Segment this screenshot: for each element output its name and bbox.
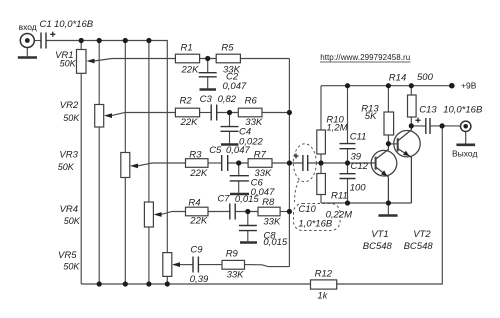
ground line under transistors: [321, 202, 411, 204]
svg-text:22K: 22K: [189, 216, 208, 227]
wire bottom bus: [81, 126, 442, 284]
wire R3 to C5: [208, 162, 222, 164]
capacitor C11: [340, 144, 356, 149]
wire R10 stems: [320, 86, 322, 163]
wire R11 stems: [320, 163, 322, 203]
wire R7 to summing line: [272, 162, 289, 164]
ground bar C2: [200, 88, 217, 91]
wire column 4: [148, 41, 150, 285]
resistor R9: [222, 260, 245, 269]
svg-text:0,82: 0,82: [218, 94, 237, 105]
wire R6 to summing line: [262, 112, 289, 114]
wire VR5 wiper to C9: [180, 264, 194, 266]
svg-text:10,0*16В: 10,0*16В: [443, 105, 483, 116]
svg-text:22K: 22K: [189, 168, 208, 179]
wire C4 stems: [229, 113, 231, 144]
svg-text:VT1: VT1: [371, 229, 388, 240]
svg-text:C10: C10: [298, 204, 316, 215]
svg-text:33K: 33K: [227, 270, 245, 281]
capacitor C13: [426, 118, 430, 134]
wire input to C1: [34, 40, 41, 42]
svg-text:R9: R9: [226, 249, 239, 260]
input connector ground stem: [26, 47, 28, 56]
node C13 output: [440, 123, 445, 128]
wire column 3: [124, 41, 126, 285]
wire column 2: [98, 41, 100, 285]
svg-text:VT2: VT2: [413, 229, 431, 240]
summing line junctions: [287, 110, 292, 115]
resistor R13: [384, 112, 394, 135]
wiper arrow VR1: [87, 59, 95, 64]
capacitor C12: [340, 174, 356, 179]
svg-text:500: 500: [417, 72, 434, 83]
plus C1: [50, 32, 55, 37]
wire VR4 wiper to R4: [161, 212, 186, 215]
svg-text:10,0*16В: 10,0*16В: [54, 19, 94, 30]
wire C3 to R6: [217, 112, 239, 114]
svg-text:C11: C11: [350, 132, 367, 143]
wire C2 stems: [207, 59, 209, 89]
resistor R11: [317, 174, 326, 195]
capacitor C4: [221, 127, 239, 132]
wire R14 stems: [410, 86, 412, 126]
node VT2 collector R14 C13: [409, 123, 414, 128]
transistor VT2: [394, 126, 420, 203]
svg-text:C3: C3: [200, 94, 213, 105]
svg-text:R12: R12: [315, 269, 333, 280]
wire VR2 wiper to R2: [112, 113, 176, 116]
wire C9 to R9: [198, 264, 222, 266]
wire C13 row to output: [411, 125, 460, 127]
svg-text:C9: C9: [190, 244, 203, 255]
wire R2 to C3: [200, 112, 212, 114]
svg-text:50K: 50K: [63, 113, 80, 123]
ground bar C6: [230, 193, 249, 196]
resistor R12: [311, 280, 337, 289]
svg-text:R5: R5: [221, 43, 234, 54]
capacitor C10: [303, 155, 308, 171]
svg-text:1k: 1k: [317, 290, 328, 301]
wire C5 to R7: [228, 162, 248, 164]
svg-text:BC548: BC548: [363, 241, 393, 252]
potentiometer VR4: [144, 202, 153, 227]
capacitor C8: [239, 226, 257, 231]
svg-text:R3: R3: [189, 149, 202, 160]
svg-text:0,39: 0,39: [190, 274, 209, 285]
ground bar C4: [221, 143, 239, 146]
resistor R1: [175, 54, 199, 63]
wiper arrow VR5: [172, 262, 180, 267]
main ground stem: [387, 203, 389, 214]
wire summing node through C10: [289, 162, 375, 164]
url underline: [320, 61, 411, 63]
node VT1 collector VT2 base: [386, 141, 391, 146]
wire R4 to C7: [208, 211, 230, 213]
node A1: [205, 56, 210, 61]
capacitor C3: [211, 105, 217, 121]
input connector XS1: [20, 34, 34, 48]
svg-text:1,2M: 1,2M: [326, 122, 347, 133]
junction dots top bus: [79, 38, 84, 43]
junction dots bottom bus: [97, 281, 102, 286]
wire R1 to R5: [200, 58, 217, 60]
capacitor C6: [230, 176, 249, 181]
node C11-C12 mid: [345, 160, 350, 165]
svg-text:R4: R4: [188, 197, 200, 208]
summing line vertical: [288, 59, 290, 267]
potentiometer VR1: [77, 50, 87, 74]
resistor R10: [317, 130, 326, 154]
ground line junctions: [345, 200, 350, 205]
svg-text:5K: 5K: [365, 111, 377, 122]
resistor R3: [186, 159, 209, 168]
svg-text:50K: 50K: [64, 216, 81, 226]
svg-text:VR2: VR2: [60, 100, 79, 111]
ground bar C8: [240, 241, 257, 244]
svg-text:VR3: VR3: [59, 149, 78, 160]
svg-text:C1: C1: [40, 19, 52, 30]
svg-text:http://www.299792458.ru: http://www.299792458.ru: [320, 53, 410, 62]
svg-text:VR5: VR5: [58, 250, 77, 261]
svg-text:100: 100: [350, 182, 367, 193]
output connector ground stem: [465, 132, 467, 144]
wire C8 stems: [247, 212, 249, 242]
node A4: [245, 209, 250, 214]
svg-text:0,047: 0,047: [226, 145, 250, 156]
rail junctions: [345, 83, 350, 88]
potentiometer VR2: [95, 105, 104, 128]
capacitor C9: [193, 257, 198, 273]
wire top bus and column 5: [46, 41, 167, 285]
wire VR1 wiper to R1: [94, 59, 175, 62]
potentiometer VR3: [121, 153, 130, 178]
svg-text:33K: 33K: [263, 216, 281, 227]
wire VT1 collector node to VT2 base: [388, 143, 397, 145]
resistor R6: [238, 108, 262, 117]
output connector XS2: [461, 121, 471, 131]
wire R5 to summing line: [240, 58, 289, 60]
svg-text:BC548: BC548: [404, 241, 434, 252]
capacitor C1: [41, 33, 46, 49]
svg-text:вход: вход: [19, 22, 37, 32]
node B after C10: [318, 160, 323, 165]
transistor VT1: [371, 144, 397, 203]
resistor R4: [186, 207, 209, 216]
svg-text:22K: 22K: [181, 64, 200, 75]
svg-text:R8: R8: [262, 197, 275, 208]
svg-text:C5: C5: [209, 145, 222, 156]
svg-text:R2: R2: [180, 96, 193, 107]
svg-text:0,047: 0,047: [223, 81, 247, 92]
wiper arrow VR2: [104, 113, 112, 118]
wire VR3 wiper to R3: [138, 163, 186, 166]
wire R8 to summing line: [280, 211, 289, 213]
svg-text:VR4: VR4: [60, 204, 78, 215]
node A3: [236, 160, 241, 165]
potentiometer VR5: [163, 253, 172, 277]
svg-text:Выход: Выход: [452, 149, 477, 159]
svg-text:R11: R11: [331, 190, 348, 201]
capacitor C2: [199, 73, 217, 77]
svg-text:0,22M: 0,22M: [326, 210, 352, 221]
wire R13 stems: [387, 86, 389, 144]
wire R9 to summing line bottom: [245, 265, 290, 267]
svg-text:R1: R1: [181, 43, 193, 54]
ground bar main: [378, 214, 397, 217]
svg-text:+9В: +9В: [461, 81, 477, 91]
node A2: [227, 110, 232, 115]
svg-text:R7: R7: [254, 149, 267, 160]
wiper arrow VR3: [130, 164, 138, 169]
plus C10: [294, 154, 299, 159]
wire C11 C12 chain: [347, 86, 349, 203]
+9V terminal: [449, 83, 455, 89]
resistor R14: [408, 95, 417, 117]
svg-text:R14: R14: [389, 72, 406, 83]
svg-text:50K: 50K: [63, 261, 80, 271]
wire C6 stems: [238, 163, 240, 193]
svg-text:0,015: 0,015: [263, 237, 287, 248]
resistor R2: [175, 108, 199, 117]
svg-text:50K: 50K: [58, 162, 75, 172]
svg-text:C13: C13: [419, 105, 437, 116]
plus C13: [415, 118, 420, 123]
+9V rail: [321, 85, 452, 87]
wire C7 to R8: [235, 211, 258, 213]
ground bar output: [456, 144, 475, 147]
dashed tail from ellipse to C10 label blob: [295, 181, 299, 203]
capacitor C7: [230, 204, 235, 220]
ground bar input: [18, 56, 37, 59]
svg-text:R6: R6: [245, 96, 258, 107]
svg-text:50K: 50K: [60, 59, 77, 69]
wire column 1: [80, 41, 82, 285]
resistor R5: [216, 54, 240, 63]
dashed box around C10 label: [294, 204, 341, 231]
resistor R7: [248, 159, 272, 168]
capacitor C5: [222, 155, 228, 171]
svg-text:C7: C7: [217, 194, 230, 205]
dashed ellipse around C10: [293, 144, 316, 182]
svg-text:0,015: 0,015: [235, 194, 259, 205]
wiper arrow VR4: [154, 212, 162, 217]
svg-text:22K: 22K: [180, 117, 199, 128]
svg-text:C12: C12: [351, 161, 369, 172]
resistor R8: [258, 207, 280, 216]
